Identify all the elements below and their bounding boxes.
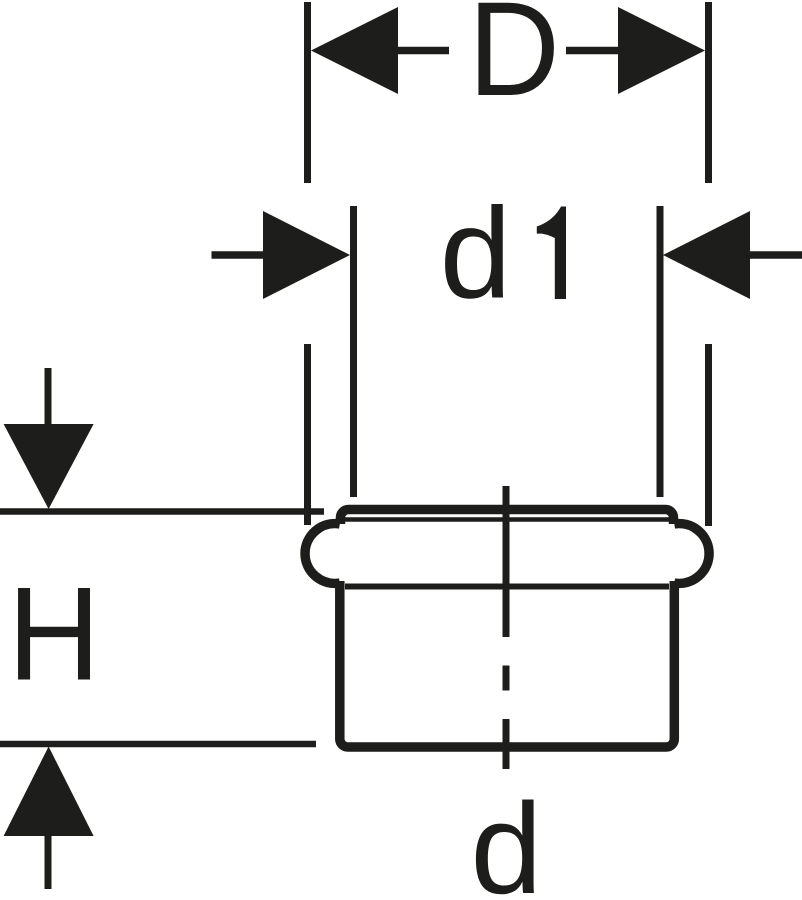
fitting rim bottom line xyxy=(345,584,669,590)
dimension arrow H bottom (up) xyxy=(4,747,94,837)
fitting gasket line xyxy=(344,517,670,522)
svg-text:H: H xyxy=(8,561,101,709)
svg-text:D: D xyxy=(468,0,560,124)
dimension tail D left xyxy=(396,47,449,55)
extension line D right xyxy=(705,2,712,526)
dimension line H top reference xyxy=(0,508,324,515)
label d1 digit xyxy=(537,207,566,300)
dimension tail d1 right xyxy=(748,251,802,259)
fitting rim top edge xyxy=(341,510,674,525)
dimension stem H top xyxy=(45,368,52,426)
dimension tail D right xyxy=(566,47,620,55)
fitting rim bulge right xyxy=(674,524,709,584)
dimension arrow d1 left xyxy=(263,211,350,299)
dimension tail d1 left xyxy=(212,251,266,259)
dimension arrow H top (down) xyxy=(4,424,94,509)
svg-text:d: d xyxy=(471,777,543,900)
fitting rim bulge left xyxy=(305,524,340,584)
extension line d1 left xyxy=(350,206,357,497)
dimension line H bottom reference xyxy=(0,741,316,748)
dimension arrow D right xyxy=(618,7,705,94)
centerline dashes xyxy=(503,486,510,769)
svg-text:d: d xyxy=(440,182,512,326)
dimension stem H bottom xyxy=(45,834,52,889)
dimension arrow D left xyxy=(311,7,398,94)
fitting body outline xyxy=(340,581,675,747)
dimension arrow d1 right xyxy=(663,211,750,299)
extension line d1 right xyxy=(657,206,664,497)
extension line D left xyxy=(304,2,311,525)
